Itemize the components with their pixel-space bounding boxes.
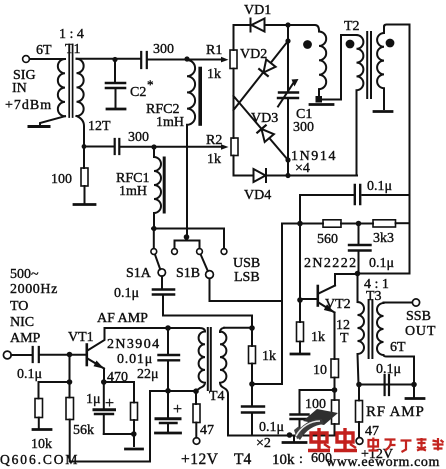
capacitor 0.1u (top right) [300, 185, 410, 224]
svg-text:+: + [105, 395, 114, 412]
wire ring bottom to T2 [288, 175, 357, 177]
SSB OUT terminal [412, 299, 419, 306]
svg-text:Q606.COM: Q606.COM [0, 452, 79, 467]
resistor 10k [35, 399, 43, 428]
primary lead [357, 275, 359, 302]
transformer T2 [288, 25, 410, 176]
bottom +12V rail [70, 391, 150, 462]
svg-text:500~: 500~ [10, 267, 39, 282]
svg-text:1k: 1k [207, 152, 221, 167]
S1B rail [210, 278, 283, 301]
ground [29, 125, 49, 128]
svg-text:2N2222: 2N2222 [304, 256, 358, 271]
switch S1A [155, 255, 166, 277]
svg-text:NIC: NIC [10, 315, 34, 330]
node junction [67, 352, 73, 358]
svg-text:12T: 12T [88, 119, 111, 134]
ground [156, 432, 181, 435]
resistor 47 (T4) [193, 391, 200, 438]
variable capacitor C1 [278, 79, 299, 107]
svg-text:VD4: VD4 [244, 188, 271, 203]
svg-text:1 : 4: 1 : 4 [59, 27, 84, 42]
inductor RFC2 [187, 60, 195, 237]
S1A rail [163, 316, 252, 329]
node junction [112, 57, 117, 62]
node junction [249, 325, 255, 331]
capacitor 1u electrolytic [94, 382, 134, 434]
svg-text:×4: ×4 [295, 161, 310, 176]
node junction [297, 221, 303, 227]
svg-text:300: 300 [153, 42, 174, 57]
svg-text:T: T [340, 331, 349, 346]
watermark chinese site text [369, 438, 444, 453]
svg-text:LSB: LSB [234, 270, 260, 285]
node junction [249, 381, 255, 387]
stub to circle1 [153, 229, 155, 249]
phase dot B [346, 40, 355, 49]
svg-text:S1A: S1A [126, 266, 152, 281]
svg-text:1k: 1k [262, 349, 276, 364]
wire T1 left bottom to ground [40, 116, 65, 125]
transistor VT1 2N3904 [87, 328, 105, 382]
secondary winding [220, 328, 224, 332]
svg-text:10k: 10k [31, 437, 52, 452]
resistor R2 [231, 138, 238, 156]
primary winding [199, 328, 205, 332]
ground [406, 387, 424, 399]
node junction [151, 144, 156, 149]
resistor 10 [331, 359, 339, 390]
resistor 560 [303, 220, 356, 227]
svg-text:TO: TO [10, 299, 28, 314]
svg-text:T3: T3 [366, 289, 382, 304]
inductor RFC1 [154, 147, 161, 229]
node junction [82, 144, 87, 149]
svg-text:22μ: 22μ [137, 367, 159, 382]
resistor 1k (VT2 base) [297, 322, 304, 352]
svg-text:VD1: VD1 [244, 3, 271, 18]
svg-text:R2: R2 [206, 133, 222, 148]
svg-text:1μ: 1μ [86, 392, 101, 407]
ground [291, 353, 309, 356]
capacitor C2 [106, 61, 125, 108]
diode VD4 [254, 169, 289, 182]
capacitor 300 (lower) [115, 139, 120, 154]
secondary top to SSB OUT [384, 302, 413, 304]
winding A [288, 25, 319, 31]
T3 core [369, 300, 373, 358]
node junction [151, 226, 156, 231]
wire VT2 collector [335, 274, 358, 286]
svg-text:47: 47 [200, 423, 214, 438]
node junction [411, 382, 417, 388]
node junction [287, 432, 293, 438]
svg-text:100: 100 [305, 397, 326, 412]
wire [30, 58, 65, 60]
winding B [357, 35, 364, 176]
RFC1 core bar [163, 158, 166, 212]
resistor 56k [66, 382, 74, 462]
wire A-bottom to B-top [322, 35, 357, 100]
capacitor 0.1u (x2, T4) [242, 384, 264, 436]
svg-text:0.1μ: 0.1μ [369, 256, 394, 271]
svg-text:0.1μ: 0.1μ [367, 179, 392, 194]
svg-text:10: 10 [313, 363, 327, 378]
svg-text:0.1μ: 0.1μ [17, 367, 42, 382]
resistor 470 [131, 382, 138, 446]
svg-text:USB: USB [233, 256, 260, 271]
emitter network VT1 [104, 381, 134, 383]
node junction [285, 157, 290, 162]
svg-text:0.1μ: 0.1μ [376, 362, 401, 377]
transformer T4 [196, 328, 252, 436]
base divider wires [69, 355, 71, 383]
transformer T1 [58, 45, 84, 118]
svg-text:0.01μ: 0.01μ [117, 352, 153, 367]
svg-text:6T: 6T [36, 43, 52, 58]
svg-text:10k: 10k [272, 452, 295, 468]
svg-text:470: 470 [107, 370, 128, 385]
node junction [184, 56, 189, 61]
phase dot C [386, 39, 395, 48]
svg-text:*: * [147, 77, 154, 92]
watermark hat logo [294, 409, 338, 440]
svg-text:56k: 56k [73, 423, 94, 438]
right rail [287, 25, 289, 176]
svg-text:www.eeworm.com: www.eeworm.com [326, 455, 440, 469]
svg-text:0.1μ: 0.1μ [114, 286, 139, 301]
svg-text:S1B: S1B [176, 266, 200, 281]
svg-text:T4: T4 [234, 451, 251, 468]
capacitor 300 (top) [141, 52, 187, 68]
capacitor 22u electrolytic [156, 391, 180, 431]
diode VD3 [234, 96, 289, 160]
svg-text:SSB: SSB [406, 309, 431, 324]
collector wire [105, 327, 200, 329]
node junction [285, 22, 290, 27]
svg-text:6T: 6T [390, 340, 406, 355]
svg-text:T4: T4 [209, 389, 225, 404]
resistor 47 (RF) [356, 387, 363, 438]
switch S1B [201, 255, 214, 279]
node junction [184, 234, 190, 240]
primary winding 12T [358, 302, 365, 385]
watermark bug characters [308, 428, 357, 451]
wire emitter rail y384 [359, 384, 414, 386]
+12V terminal (T4) [193, 438, 200, 445]
svg-text:+12V: +12V [181, 451, 219, 468]
diode ring left rail [234, 25, 254, 176]
svg-text:47: 47 [365, 424, 379, 439]
svg-text:IN: IN [12, 81, 27, 96]
right vertical wire from T2 [409, 25, 411, 196]
staple from RFC2 line [175, 237, 200, 249]
svg-text:100: 100 [51, 172, 72, 187]
svg-text:+: + [173, 401, 182, 418]
junction square [316, 96, 323, 103]
svg-text:VT1: VT1 [68, 330, 94, 345]
node junction [355, 271, 361, 277]
svg-text:2000Hz: 2000Hz [10, 282, 58, 297]
input coupling cap 0.1u [3, 347, 86, 362]
svg-text:T2: T2 [344, 19, 360, 34]
ground [126, 448, 143, 451]
svg-text:0.1μ: 0.1μ [259, 420, 284, 435]
svg-text:VD2: VD2 [240, 47, 267, 62]
+12V terminal (RF) [356, 438, 363, 445]
svg-text:RF AMP: RF AMP [366, 404, 425, 420]
winding C [377, 27, 384, 110]
resistor R1 [230, 50, 237, 69]
resistor 3k3 [362, 220, 410, 227]
phase dot A [303, 40, 312, 49]
svg-text:C2: C2 [130, 85, 146, 100]
svg-text:300: 300 [128, 130, 149, 145]
ground [107, 108, 125, 111]
diode VD2 [234, 41, 289, 110]
wire x282 carrier feed [282, 224, 300, 385]
svg-text:1k: 1k [311, 330, 325, 345]
RFC2 core bar [198, 69, 202, 125]
svg-text:R1: R1 [206, 43, 222, 58]
node junction [285, 38, 290, 43]
svg-text:OUT: OUT [405, 324, 436, 339]
wire 12T to lower 300 cap [84, 146, 114, 148]
T4 core [208, 328, 211, 390]
wire to R1 with arrow [187, 59, 221, 61]
svg-text:1mH: 1mH [156, 115, 184, 130]
capacitor 0.1u (S1A) [153, 276, 174, 315]
node junction [165, 325, 171, 331]
node junction [131, 431, 137, 437]
capacitor 0.1u (T3 out) [385, 375, 389, 395]
wire S1B feed to junction [252, 383, 282, 385]
supply rail y391 [150, 390, 196, 392]
svg-text:560: 560 [317, 232, 338, 247]
ground [283, 436, 306, 443]
svg-text:VD3: VD3 [251, 111, 278, 126]
svg-text:3k3: 3k3 [373, 231, 394, 246]
node junction [356, 382, 362, 388]
svg-text:T1: T1 [65, 42, 81, 57]
wire emitter ground rail [228, 435, 335, 437]
wire T1 right top rail [77, 58, 141, 60]
diode VD1 [251, 19, 289, 32]
resistor 1k (S1A/T4) [249, 328, 256, 384]
capacitor 0.1u (VT2 base) [349, 226, 371, 271]
capacitor 0.01u [159, 330, 180, 390]
svg-text:+7dBm: +7dBm [5, 98, 52, 113]
svg-text:VT2: VT2 [325, 297, 351, 312]
switch contact circles [151, 249, 157, 255]
svg-text:1k: 1k [207, 67, 221, 82]
svg-text:2N3904: 2N3904 [107, 337, 161, 352]
node junction [332, 387, 338, 393]
resistor 100 [81, 148, 88, 203]
ground [374, 110, 392, 113]
ground [310, 103, 333, 106]
input terminal SIG IN [23, 56, 30, 63]
secondary winding 6T [377, 303, 414, 385]
T2 core [367, 32, 371, 98]
svg-text:300: 300 [293, 120, 314, 135]
resistor 100 (emitter) [332, 390, 340, 436]
wire T1 right bottom [77, 116, 85, 147]
svg-text:1mH: 1mH [119, 184, 147, 199]
svg-text:×2: ×2 [256, 436, 271, 451]
right vertical continues [360, 195, 410, 274]
capacitor 0.1u (emitter bypass) [291, 390, 335, 436]
base rail down to 1k [299, 225, 301, 322]
svg-text:AMP: AMP [10, 331, 41, 346]
transformer T3 [358, 275, 415, 385]
top rail wire [234, 24, 250, 26]
ground [74, 203, 95, 206]
ground [33, 428, 51, 431]
wire to R2 with arrow [120, 146, 222, 148]
node junction [285, 173, 290, 178]
switch wire rail y228 [152, 229, 224, 249]
svg-text:AF AMP: AF AMP [97, 311, 148, 326]
secondary top wire [224, 327, 252, 329]
svg-text::: : [299, 452, 303, 467]
node junction [297, 297, 303, 303]
node junction [356, 221, 362, 227]
transistor VT2 2N2222 [300, 286, 335, 360]
